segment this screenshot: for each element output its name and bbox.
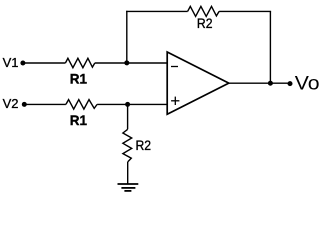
node V2 terminal dot [22, 102, 27, 107]
wire V1 to R1 [23, 62, 65, 64]
wire top rail left [126, 10, 188, 12]
resistor R2 (to ground, vertical) [123, 129, 132, 162]
svg-text:R2: R2 [136, 137, 152, 153]
op-amp inverting input minus sign [171, 66, 178, 68]
svg-text:Vo: Vo [295, 73, 320, 95]
junction node inverting input [124, 60, 129, 65]
svg-text:V1: V1 [3, 55, 19, 70]
wire V2 to R1 [24, 103, 66, 105]
wire R1 to non-inverting input [97, 103, 167, 105]
resistor R2 (feedback) [188, 6, 220, 16]
op-amp U1 triangle [167, 52, 229, 114]
wire R1 to inverting input [95, 62, 167, 64]
svg-text:V2: V2 [3, 96, 19, 111]
node V1 terminal dot [20, 61, 25, 66]
node Vo terminal dot [288, 81, 293, 86]
svg-text:R2: R2 [197, 15, 213, 31]
resistor R1 (bottom, non-inverting input) [66, 100, 97, 110]
svg-text:R1: R1 [70, 112, 87, 128]
wire junction down to R2 [127, 104, 129, 129]
resistor R1 (top, inverting input) [65, 58, 94, 67]
wire feedback vertical down to output [269, 11, 271, 83]
ground symbol [118, 184, 139, 191]
wire feedback vertical up [126, 11, 128, 63]
op-amp non-inverting input plus sign [171, 97, 179, 105]
wire op-amp output [229, 82, 290, 84]
wire top rail right [219, 10, 271, 12]
svg-text:R1: R1 [70, 71, 87, 87]
wire R2 to ground [127, 162, 129, 184]
junction node non-inverting input [125, 102, 130, 107]
junction node output feedback [268, 81, 273, 86]
